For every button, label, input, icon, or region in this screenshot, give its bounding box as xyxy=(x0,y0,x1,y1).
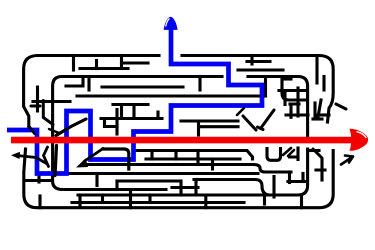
wall h y86 left xyxy=(66,84,83,87)
tick x196 xyxy=(194,180,197,195)
v x289.5 below xyxy=(288,172,291,183)
debris bent wall x43 xyxy=(43,101,53,125)
debris diag above red x67-98 xyxy=(56,119,86,136)
wall h y61 right xyxy=(247,60,270,63)
wall v x324 xyxy=(322,77,325,91)
wall tilted x320 xyxy=(318,100,321,117)
inner rect2 right bottom xyxy=(78,149,308,195)
debris arrow right below red xyxy=(341,156,353,165)
rail y173.5 xyxy=(66,172,258,175)
v x298 + tick y157 xyxy=(290,148,299,160)
rail B y179.5 + arc down xyxy=(194,180,270,196)
wall v x71 xyxy=(72,56,75,71)
wall v x121.5 xyxy=(120,56,123,69)
debris vertical x56 in U1 xyxy=(55,146,57,176)
wall h y118.5 xyxy=(101,112,162,119)
blue arrowhead xyxy=(164,17,178,30)
wall h y87 mid xyxy=(102,85,183,88)
wall h y115 right piece xyxy=(318,113,329,116)
rail y164.5 + right arc xyxy=(88,165,291,173)
small U below red xyxy=(267,149,281,161)
wall v x315 xyxy=(313,103,316,117)
wall h y150.5 right stub xyxy=(310,149,319,152)
debris Y piece xyxy=(44,147,49,167)
tick x303 xyxy=(301,174,304,182)
debris U arrow shaft xyxy=(84,149,103,162)
rail y159 xyxy=(146,157,240,160)
stub x39 below U xyxy=(37,176,40,183)
wall h y119 xyxy=(313,117,322,120)
tick x130.5 xyxy=(129,190,132,208)
rail y202.5 xyxy=(72,201,244,204)
wall stub y187.5 xyxy=(172,186,198,189)
debris slash left entry xyxy=(31,105,40,108)
wall h y70 right xyxy=(238,68,283,71)
wall hook x282 xyxy=(282,78,306,100)
inner rect2 left part xyxy=(53,77,222,190)
wall h y63 xyxy=(122,61,149,64)
red arrow shaft xyxy=(11,137,352,144)
wall h y68.5 xyxy=(80,67,128,70)
inner rect2 right top xyxy=(248,77,308,137)
blue path xyxy=(7,29,262,174)
tick x181 xyxy=(179,181,182,195)
tick x212.5 xyxy=(211,159,214,169)
debris diag x261-274 xyxy=(258,110,275,130)
wall h y91.5 x290 xyxy=(279,89,307,92)
wall tick x252 top xyxy=(250,56,253,65)
wall h y104.5 + legs xyxy=(113,105,148,119)
tick x150b xyxy=(148,195,151,203)
wall v x274 xyxy=(272,177,275,198)
wall tick x200 xyxy=(198,77,201,91)
wall tick y79 xyxy=(285,77,291,80)
debris fleck outside right border xyxy=(336,104,346,109)
tick x176 xyxy=(174,151,177,160)
wall tick x96.5 xyxy=(95,61,98,69)
outer border top-right xyxy=(182,56,333,123)
wall y181.5 right xyxy=(288,180,305,183)
wall h y95.5 long xyxy=(77,94,266,97)
debris over blue xyxy=(11,101,353,176)
debris left arrow shaft xyxy=(17,156,47,164)
outer border top-left xyxy=(24,56,159,129)
wall v x265.5 xyxy=(264,78,267,96)
red arrowhead highlight xyxy=(357,132,367,138)
wall tick x89 xyxy=(87,77,90,91)
tick x80 xyxy=(78,195,81,206)
tick x97 xyxy=(95,174,98,186)
wall h y180.5 left xyxy=(26,179,52,182)
tick x301.5 xyxy=(300,195,303,208)
wall v x317 xyxy=(315,56,318,84)
tick x205.8 xyxy=(204,196,207,208)
tick x102.5 xyxy=(101,195,104,203)
wall v x117 xyxy=(115,110,118,135)
outer border bottom-left xyxy=(24,149,333,208)
debris diag x243 xyxy=(243,116,256,130)
wall h y121 right xyxy=(181,121,238,135)
tick x117 xyxy=(115,181,118,190)
wall v x37.5 + tick xyxy=(33,87,70,111)
wall h y126.7 xyxy=(201,125,238,128)
tick x198 xyxy=(196,151,199,165)
rail y150.5 xyxy=(137,151,253,160)
debris U arrowhead xyxy=(76,159,88,168)
debris left arrowhead xyxy=(11,152,20,159)
tick x264.5 xyxy=(263,195,266,204)
tick x152 xyxy=(150,151,153,160)
blue arrowhead highlight xyxy=(166,18,170,26)
wall h y115 left piece xyxy=(286,113,308,116)
wall v x285 xyxy=(283,91,286,105)
debris border foot xyxy=(29,126,35,134)
rail A y181 xyxy=(117,179,180,182)
wall h y104 x290 + v x291 xyxy=(290,104,299,117)
debris slash x237 xyxy=(237,108,244,115)
wall v x104.5 + h y126.5 xyxy=(105,119,118,127)
debris slash right below red xyxy=(313,149,322,158)
debris slashes x283-294 xyxy=(283,148,294,156)
red arrowhead xyxy=(350,129,369,151)
debris J hook xyxy=(103,149,129,169)
wall tick x83 xyxy=(81,77,84,84)
wall v x298 mid xyxy=(296,88,299,116)
tick x40 xyxy=(38,196,41,208)
debris speck above red xyxy=(49,129,59,133)
wall v x322 below red xyxy=(316,160,325,180)
